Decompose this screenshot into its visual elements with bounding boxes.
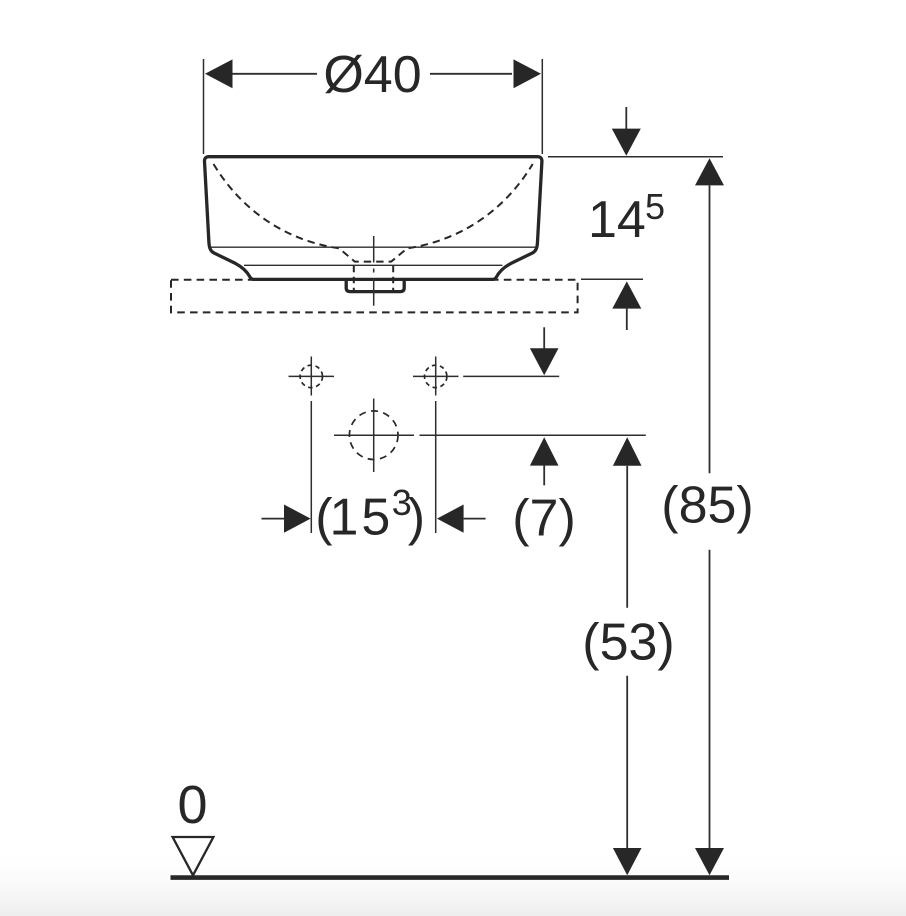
dim 15.3 arrow left [262, 518, 286, 520]
basin top extension line right [548, 156, 723, 158]
countertop dashed outline [171, 280, 578, 313]
fixture hole left dashed circle [300, 365, 322, 387]
svg-text:): ) [408, 488, 425, 546]
dim 85 line upper [695, 158, 724, 185]
dim Ø40 extension line left [203, 59, 205, 154]
countertop top extension line right [581, 278, 643, 280]
drain centerline [373, 236, 375, 306]
dim line drain level [420, 434, 646, 436]
svg-text:5: 5 [645, 186, 665, 227]
svg-text:(85): (85) [661, 477, 753, 535]
ground line [171, 875, 730, 880]
dim 7 down arrow [543, 327, 545, 349]
fixture hole right crosshair [435, 357, 437, 396]
drain pipe hidden line right [392, 266, 394, 291]
basin bowl dashed curve [214, 164, 533, 262]
svg-text:14: 14 [588, 191, 646, 249]
dim 15.3 arrow right [437, 505, 464, 533]
dim 85 line lower [709, 550, 711, 849]
svg-text:(7): (7) [512, 490, 576, 548]
dim 7 top extension line [463, 375, 559, 377]
datum zero triangle [173, 837, 214, 875]
dim Ø40 arrow right [514, 59, 542, 88]
drain axis vertical centerline [373, 399, 375, 473]
dim Ø40 line left segment [230, 73, 317, 75]
dim Ø40 extension line right [541, 59, 543, 154]
basin inner rim line [210, 246, 536, 248]
drain axis dashed circle [349, 411, 398, 460]
svg-text:(53): (53) [582, 614, 674, 672]
svg-text:15: 15 [330, 488, 394, 546]
basin lower ledge line [244, 264, 502, 266]
drain trap outline [346, 280, 404, 291]
fixture hole right dashed circle [425, 365, 447, 387]
fixture centerline extension right [435, 401, 437, 533]
dim 14.5 up arrow [612, 281, 641, 308]
dim 14.5 down arrow [625, 107, 627, 130]
fixture hole left crosshair [310, 357, 312, 396]
dim 53 line lower [626, 676, 628, 849]
dim Ø40 arrow left [205, 59, 233, 88]
drain pipe hidden line left [353, 266, 355, 291]
dim 7 up arrow [530, 437, 559, 465]
drain axis horizontal centerline [334, 434, 414, 436]
dim 53 line upper [613, 437, 642, 466]
washbasin outer outline [204, 157, 541, 280]
fixture centerline extension left [310, 401, 312, 533]
dim Ø40 line right segment [430, 73, 512, 75]
svg-text:0: 0 [177, 775, 207, 835]
svg-text:Ø40: Ø40 [323, 46, 421, 104]
